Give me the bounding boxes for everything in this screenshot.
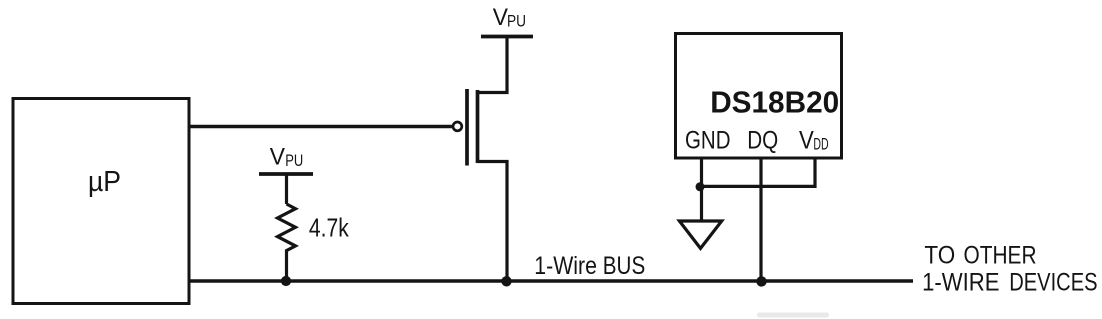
- svg-text:1-WIRE: 1-WIRE: [922, 269, 999, 297]
- node: GND / VDD junction: [696, 182, 705, 191]
- pin wire: DQ down to bus: [759, 158, 762, 281]
- svg-text:PU: PU: [507, 12, 526, 31]
- svg-text:DD: DD: [813, 134, 828, 153]
- power rail V_PU at MOSFET source: [481, 4, 533, 36]
- pin wire: GND down from DS18B20: [700, 158, 703, 221]
- svg-text:OTHER: OTHER: [964, 241, 1037, 269]
- IC DS18B20: [676, 34, 842, 159]
- svg-text:1-Wire: 1-Wire: [534, 252, 597, 280]
- net label: 1-Wire BUS: [534, 252, 645, 280]
- node: MOSFET drain to bus junction: [501, 276, 511, 286]
- svg-text:4.7k: 4.7k: [309, 213, 350, 243]
- node: DQ to bus junction: [756, 276, 766, 286]
- svg-text:TO: TO: [924, 241, 955, 269]
- svg-text:V: V: [270, 143, 286, 170]
- svg-text:V: V: [799, 127, 814, 155]
- svg-text:PU: PU: [285, 151, 303, 170]
- faint watermark smudge: [757, 313, 829, 318]
- label: TO OTHER 1-WIRE DEVICES: [922, 241, 1098, 296]
- svg-text:DEVICES: DEVICES: [1009, 269, 1097, 297]
- wire: µP output to MOSFET gate: [189, 125, 452, 129]
- svg-text:GND: GND: [685, 127, 731, 155]
- transistor Q1 P-channel MOSFET: [453, 38, 507, 281]
- ground symbol: [679, 221, 721, 248]
- svg-text:DQ: DQ: [747, 127, 778, 155]
- microprocessor box µP: [13, 99, 189, 304]
- resistor R 4.7k pull-up: [278, 174, 350, 281]
- power rail V_PU at pull-up resistor: [259, 143, 313, 174]
- svg-text:µP: µP: [88, 166, 121, 198]
- svg-text:BUS: BUS: [603, 252, 645, 280]
- wire: VDD strapped to GND (parasite power): [700, 158, 815, 186]
- svg-text:DS18B20: DS18B20: [710, 84, 839, 119]
- wire: 1-Wire bus: [189, 279, 913, 282]
- node: resistor to bus junction: [281, 276, 291, 286]
